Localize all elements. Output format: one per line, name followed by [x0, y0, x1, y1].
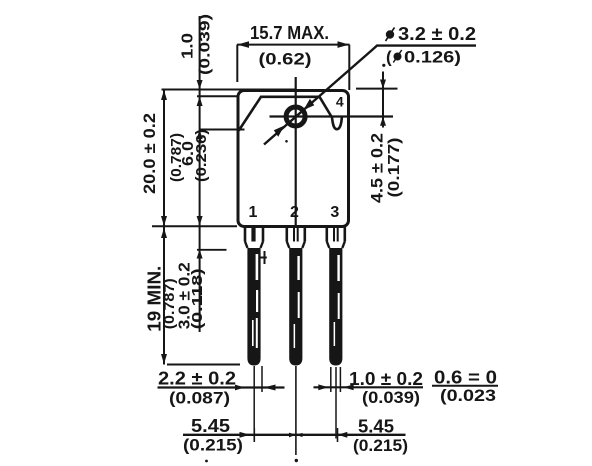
svg-text:4.5 ± 0.2: 4.5 ± 0.2: [368, 133, 387, 203]
svg-text:(0.039): (0.039): [197, 14, 214, 75]
svg-text:0.126): 0.126): [404, 48, 461, 67]
svg-text:3.2 ± 0.2: 3.2 ± 0.2: [398, 24, 476, 44]
svg-text:15.7 MAX.: 15.7 MAX.: [250, 23, 329, 43]
svg-text:(0.087): (0.087): [169, 389, 230, 408]
svg-text:(0.787): (0.787): [161, 278, 178, 329]
svg-text:(0.118): (0.118): [189, 268, 206, 329]
svg-text:(0.023: (0.023: [440, 386, 496, 405]
svg-text:1.0 ± 0.2: 1.0 ± 0.2: [349, 369, 423, 389]
svg-text:4: 4: [336, 94, 344, 110]
svg-text:(0.177): (0.177): [386, 138, 403, 198]
svg-text:(: (: [386, 48, 392, 67]
svg-text:2.2 ± 0.2: 2.2 ± 0.2: [158, 369, 236, 389]
svg-text:5.45: 5.45: [191, 416, 230, 436]
svg-text:(0.039): (0.039): [362, 388, 420, 407]
svg-text:1: 1: [249, 204, 258, 221]
svg-text:3: 3: [330, 204, 339, 221]
svg-text:(0.236): (0.236): [193, 129, 210, 182]
svg-text:(0.215): (0.215): [183, 436, 243, 455]
svg-text:0.6 = 0: 0.6 = 0: [434, 368, 497, 388]
svg-text:(0.62): (0.62): [259, 50, 312, 69]
svg-text:5.45: 5.45: [358, 417, 394, 437]
svg-text:1.0: 1.0: [180, 33, 197, 59]
svg-text:(0.215): (0.215): [353, 436, 408, 455]
svg-text:2: 2: [290, 204, 299, 221]
svg-text:20.0 ± 0.2: 20.0 ± 0.2: [140, 113, 159, 194]
